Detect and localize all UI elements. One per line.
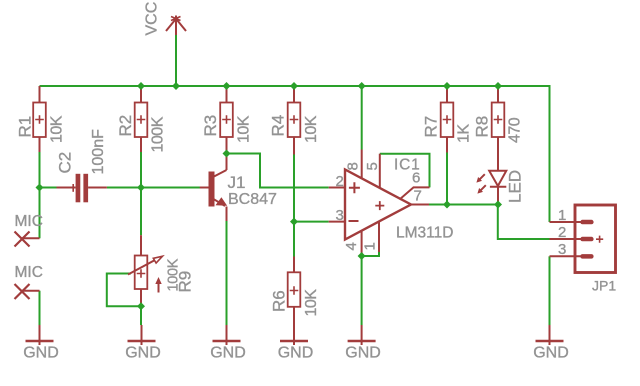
svg-text:6: 6 [412,170,420,187]
svg-text:R6: R6 [270,290,289,312]
svg-text:R1: R1 [16,116,35,138]
svg-text:2: 2 [558,224,566,241]
svg-text:R3: R3 [201,115,220,137]
svg-text:470: 470 [507,117,524,143]
svg-text:GND: GND [278,345,314,362]
svg-text:5: 5 [364,162,381,170]
svg-text:10K: 10K [49,115,66,143]
svg-text:100K: 100K [166,258,182,291]
svg-text:LM311D: LM311D [396,225,453,242]
svg-text:4: 4 [343,242,360,250]
svg-text:1: 1 [558,207,566,224]
svg-text:GND: GND [345,345,381,362]
svg-text:GND: GND [125,345,161,362]
svg-text:MIC: MIC [15,264,43,281]
svg-text:3: 3 [336,207,344,224]
svg-text:C2: C2 [56,152,75,174]
svg-text:GND: GND [533,345,569,362]
svg-text:BC847: BC847 [228,191,277,208]
svg-text:8: 8 [345,162,362,170]
svg-text:10K: 10K [236,115,253,143]
svg-text:10K: 10K [303,115,320,143]
svg-text:100nF: 100nF [90,129,107,175]
svg-text:GND: GND [210,345,246,362]
svg-text:J1: J1 [228,173,246,192]
svg-text:100K: 100K [150,116,167,152]
svg-text:10K: 10K [303,289,320,317]
svg-text:1K: 1K [456,124,473,143]
svg-text:R4: R4 [269,115,288,137]
svg-text:GND: GND [23,345,59,362]
svg-text:R8: R8 [473,116,492,138]
svg-text:1: 1 [362,242,379,250]
svg-text:7: 7 [414,188,422,205]
svg-text:R7: R7 [422,116,441,138]
svg-text:LED: LED [506,170,525,203]
svg-text:MIC: MIC [15,213,43,230]
svg-text:R2: R2 [116,115,135,137]
svg-text:VCC: VCC [144,2,161,36]
svg-text:JP1: JP1 [592,278,616,294]
svg-text:3: 3 [558,241,566,258]
svg-text:2: 2 [336,173,344,190]
